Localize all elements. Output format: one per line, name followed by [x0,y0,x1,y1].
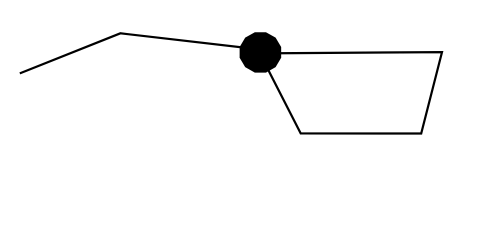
wire polyline segment left [20,33,259,73]
node A [240,32,282,72]
polygon P1 (trapezoid outline) [260,52,442,133]
